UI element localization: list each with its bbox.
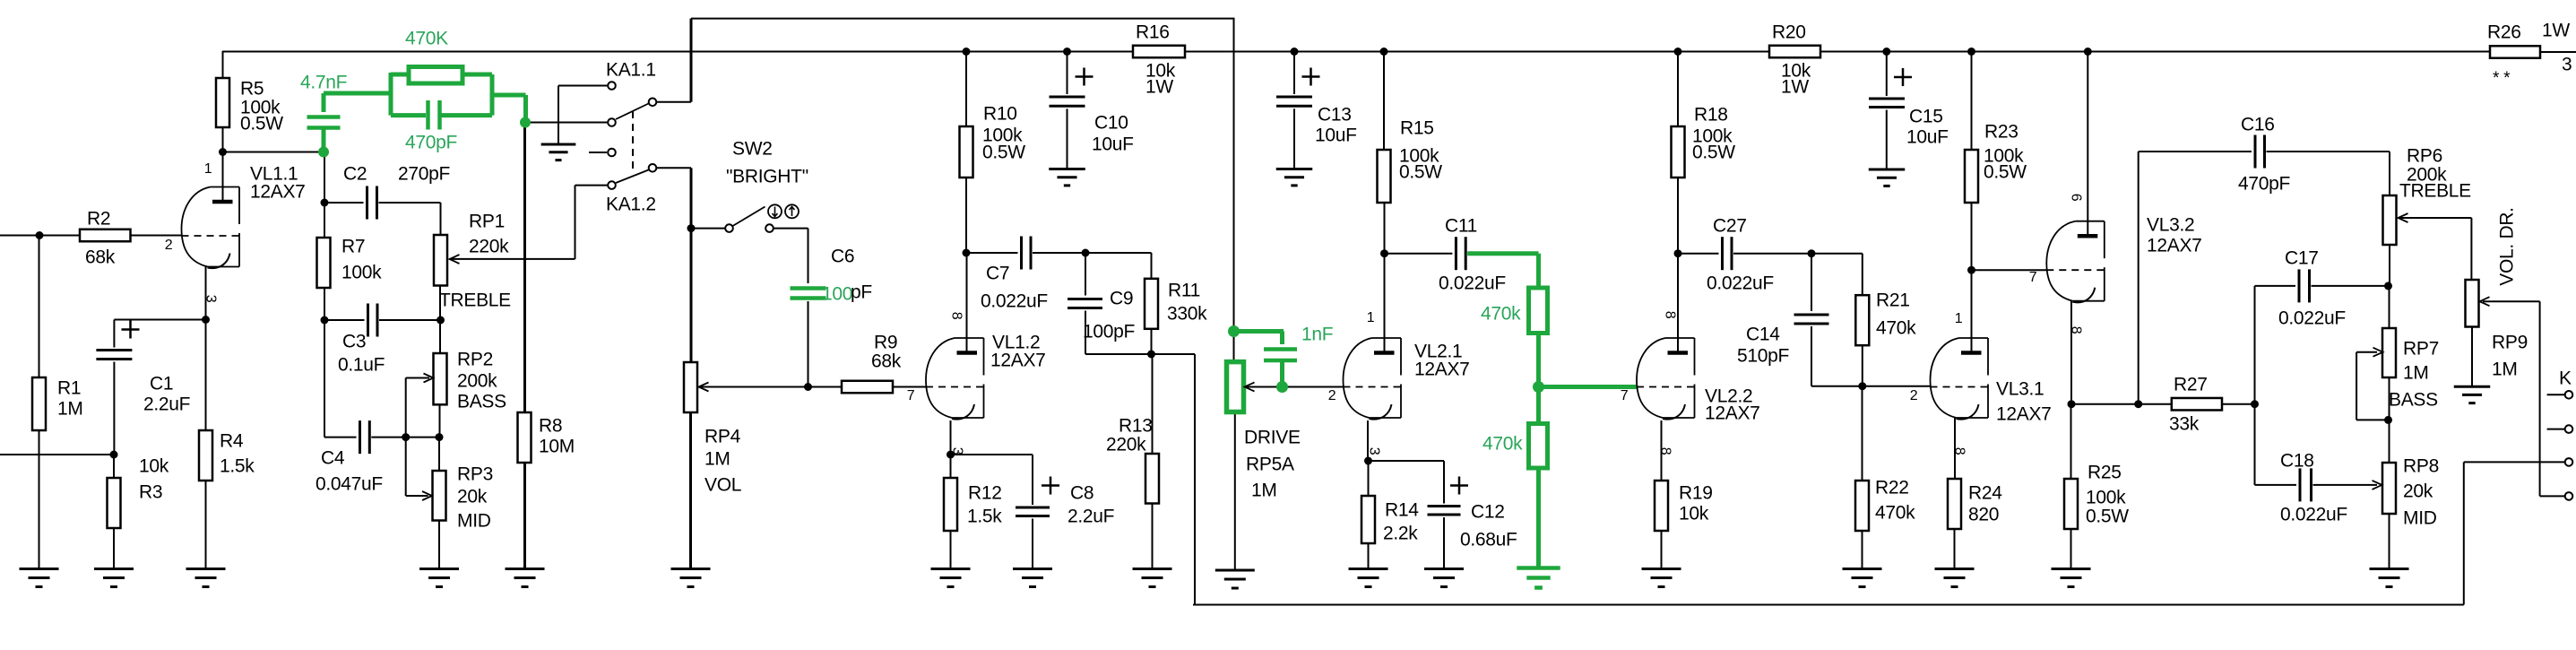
svg-text:R12: R12 bbox=[968, 483, 1002, 504]
svg-text:R26: R26 bbox=[2487, 22, 2521, 43]
svg-text:C14: C14 bbox=[1746, 325, 1780, 345]
svg-text:C8: C8 bbox=[1070, 483, 1094, 504]
svg-text:3: 3 bbox=[1366, 447, 1381, 455]
svg-text:R2: R2 bbox=[87, 209, 110, 230]
svg-text:1.5k: 1.5k bbox=[967, 507, 1002, 527]
svg-text:0.5W: 0.5W bbox=[240, 114, 283, 134]
svg-text:R3: R3 bbox=[139, 482, 162, 503]
svg-text:2: 2 bbox=[1328, 388, 1336, 403]
svg-text:1.5k: 1.5k bbox=[220, 456, 255, 477]
svg-text:8: 8 bbox=[1951, 447, 1967, 455]
svg-text:R27: R27 bbox=[2174, 375, 2208, 395]
svg-text:12AX7: 12AX7 bbox=[1705, 403, 1760, 424]
svg-text:7: 7 bbox=[1621, 388, 1629, 403]
svg-text:RP4: RP4 bbox=[705, 427, 741, 447]
svg-text:C15: C15 bbox=[1909, 107, 1943, 127]
svg-text:3: 3 bbox=[949, 447, 964, 455]
svg-text:K: K bbox=[2559, 368, 2572, 389]
svg-text:330k: 330k bbox=[1167, 304, 1207, 325]
svg-text:R23: R23 bbox=[1984, 122, 2018, 143]
svg-text:1: 1 bbox=[204, 161, 212, 177]
svg-text:470pF: 470pF bbox=[405, 133, 457, 153]
svg-text:C2: C2 bbox=[343, 164, 367, 185]
svg-text:0.022uF: 0.022uF bbox=[1707, 273, 1774, 294]
svg-text:1M: 1M bbox=[57, 399, 83, 420]
svg-text:R5: R5 bbox=[240, 79, 264, 100]
svg-text:100pF: 100pF bbox=[1083, 322, 1135, 342]
svg-text:VOL. DR.: VOL. DR. bbox=[2497, 207, 2518, 285]
svg-text:10k: 10k bbox=[139, 456, 169, 477]
svg-text:BASS: BASS bbox=[457, 392, 506, 412]
svg-text:C4: C4 bbox=[321, 448, 345, 469]
svg-text:510pF: 510pF bbox=[1737, 346, 1789, 367]
svg-text:R18: R18 bbox=[1694, 105, 1728, 126]
svg-text:pF: pF bbox=[851, 282, 872, 303]
svg-text:R10: R10 bbox=[983, 104, 1017, 125]
svg-text:2.2uF: 2.2uF bbox=[1068, 507, 1114, 527]
svg-text:MID: MID bbox=[2403, 508, 2437, 529]
svg-text:220k: 220k bbox=[1106, 435, 1146, 455]
svg-text:R11: R11 bbox=[1168, 281, 1200, 301]
svg-text:R22: R22 bbox=[1875, 478, 1909, 498]
svg-text:2: 2 bbox=[165, 238, 173, 253]
svg-text:1W: 1W bbox=[2542, 21, 2570, 41]
svg-text:1: 1 bbox=[1955, 311, 1963, 326]
svg-text:C1: C1 bbox=[150, 374, 173, 394]
svg-text:10M: 10M bbox=[539, 437, 575, 457]
svg-text:C18: C18 bbox=[2280, 451, 2314, 472]
svg-text:1M: 1M bbox=[2403, 363, 2429, 384]
svg-text:1: 1 bbox=[1367, 310, 1375, 325]
svg-text:VOL: VOL bbox=[705, 475, 741, 496]
svg-text:68k: 68k bbox=[85, 247, 116, 268]
svg-text:100k: 100k bbox=[341, 263, 382, 283]
svg-text:0.047uF: 0.047uF bbox=[316, 474, 383, 495]
svg-text:KA1.1: KA1.1 bbox=[606, 60, 656, 81]
svg-text:R19: R19 bbox=[1679, 483, 1713, 504]
svg-text:10uF: 10uF bbox=[1906, 127, 1949, 148]
svg-text:RP6: RP6 bbox=[2407, 146, 2442, 167]
svg-text:C12: C12 bbox=[1471, 502, 1505, 523]
svg-text:8: 8 bbox=[1662, 311, 1677, 319]
svg-text:R1: R1 bbox=[57, 378, 81, 399]
svg-text:8: 8 bbox=[948, 312, 964, 320]
svg-text:R16: R16 bbox=[1136, 22, 1170, 43]
svg-text:6: 6 bbox=[2068, 194, 2083, 202]
svg-text:2.2k: 2.2k bbox=[1383, 524, 1418, 544]
svg-text:0.68uF: 0.68uF bbox=[1460, 530, 1517, 550]
svg-text:R24: R24 bbox=[1968, 483, 2002, 504]
svg-text:470pF: 470pF bbox=[2238, 174, 2290, 195]
svg-text:C16: C16 bbox=[2241, 115, 2275, 135]
svg-text:R20: R20 bbox=[1772, 22, 1806, 43]
svg-text:10uF: 10uF bbox=[1315, 126, 1357, 146]
svg-text:12AX7: 12AX7 bbox=[1414, 360, 1470, 380]
svg-text:R4: R4 bbox=[220, 431, 244, 452]
svg-text:1M: 1M bbox=[1251, 481, 1277, 501]
svg-text:3: 3 bbox=[2562, 55, 2572, 75]
svg-text:2: 2 bbox=[1910, 388, 1918, 403]
svg-text:C10: C10 bbox=[1094, 113, 1128, 134]
svg-text:0.5W: 0.5W bbox=[1692, 143, 1735, 163]
svg-text:RP9: RP9 bbox=[2492, 333, 2528, 353]
svg-text:R14: R14 bbox=[1385, 500, 1419, 521]
svg-text:33k: 33k bbox=[2169, 414, 2200, 435]
svg-text:1M: 1M bbox=[2492, 360, 2518, 380]
svg-text:VL3.1: VL3.1 bbox=[1996, 379, 2044, 400]
svg-text:R15: R15 bbox=[1400, 118, 1434, 139]
svg-text:12AX7: 12AX7 bbox=[1996, 404, 2052, 425]
svg-text:0.022uF: 0.022uF bbox=[1439, 273, 1506, 294]
svg-text:7: 7 bbox=[907, 388, 915, 403]
svg-text:470k: 470k bbox=[1482, 434, 1523, 455]
svg-text:KA1.2: KA1.2 bbox=[606, 195, 656, 215]
svg-text:MID: MID bbox=[457, 511, 491, 532]
svg-text:C7: C7 bbox=[986, 264, 1009, 284]
svg-text:20k: 20k bbox=[2403, 481, 2433, 502]
svg-text:10uF: 10uF bbox=[1092, 134, 1134, 155]
svg-text:3: 3 bbox=[203, 295, 218, 303]
svg-text:R25: R25 bbox=[2088, 463, 2122, 483]
svg-text:2.2uF: 2.2uF bbox=[143, 394, 190, 415]
svg-text:BASS: BASS bbox=[2389, 390, 2438, 411]
svg-text:R8: R8 bbox=[539, 416, 562, 437]
svg-text:RP7: RP7 bbox=[2403, 339, 2439, 360]
svg-text:1nF: 1nF bbox=[1301, 325, 1333, 345]
svg-text:R13: R13 bbox=[1119, 416, 1153, 437]
svg-text:R9: R9 bbox=[874, 333, 897, 353]
svg-text:1M: 1M bbox=[705, 449, 730, 470]
svg-text:270pF: 270pF bbox=[398, 164, 450, 185]
svg-text:0.5W: 0.5W bbox=[1984, 162, 2027, 183]
svg-text:0.5W: 0.5W bbox=[2086, 507, 2129, 527]
svg-text:R21: R21 bbox=[1876, 290, 1910, 311]
svg-text:SW2: SW2 bbox=[732, 139, 773, 160]
svg-text:200k: 200k bbox=[457, 371, 497, 392]
svg-text:C13: C13 bbox=[1318, 105, 1352, 126]
svg-text:VL3.2: VL3.2 bbox=[2147, 215, 2194, 236]
svg-text:7: 7 bbox=[2029, 270, 2037, 285]
svg-text:8: 8 bbox=[2068, 326, 2083, 334]
svg-text:470k: 470k bbox=[1875, 503, 1915, 524]
svg-text:4.7nF: 4.7nF bbox=[300, 73, 347, 93]
svg-text:TREBLE: TREBLE bbox=[2399, 181, 2471, 202]
svg-text:* *: * * bbox=[2493, 69, 2511, 88]
svg-text:C27: C27 bbox=[1713, 216, 1747, 237]
svg-text:RP8: RP8 bbox=[2403, 456, 2439, 477]
svg-text:10k: 10k bbox=[1679, 504, 1709, 524]
svg-text:0.5W: 0.5W bbox=[1399, 162, 1442, 183]
svg-text:0.022uF: 0.022uF bbox=[2280, 505, 2347, 525]
svg-text:220k: 220k bbox=[469, 237, 509, 257]
svg-text:12AX7: 12AX7 bbox=[2147, 236, 2202, 256]
svg-text:RP5A: RP5A bbox=[1246, 455, 1294, 475]
svg-text:470k: 470k bbox=[1876, 318, 1916, 339]
svg-text:8: 8 bbox=[1657, 447, 1673, 455]
svg-text:RP3: RP3 bbox=[457, 464, 493, 485]
svg-text:0.022uF: 0.022uF bbox=[981, 291, 1048, 312]
svg-text:1W: 1W bbox=[1781, 77, 1809, 98]
svg-text:RP2: RP2 bbox=[457, 350, 493, 370]
svg-text:0.1uF: 0.1uF bbox=[338, 355, 385, 376]
svg-text:"BRIGHT": "BRIGHT" bbox=[726, 167, 808, 187]
svg-text:470K: 470K bbox=[405, 29, 448, 49]
svg-text:12AX7: 12AX7 bbox=[990, 351, 1046, 371]
svg-text:C3: C3 bbox=[342, 332, 366, 352]
svg-text:820: 820 bbox=[1968, 505, 1999, 525]
svg-text:100k: 100k bbox=[2086, 488, 2126, 508]
svg-text:C6: C6 bbox=[831, 247, 854, 267]
svg-text:470k: 470k bbox=[1481, 304, 1521, 325]
svg-text:C17: C17 bbox=[2285, 248, 2319, 269]
svg-text:20k: 20k bbox=[457, 487, 488, 507]
svg-text:1W: 1W bbox=[1145, 77, 1173, 98]
svg-text:DRIVE: DRIVE bbox=[1244, 428, 1301, 448]
svg-text:RP1: RP1 bbox=[469, 212, 505, 232]
svg-text:TREBLE: TREBLE bbox=[439, 290, 511, 311]
svg-text:C11: C11 bbox=[1445, 216, 1477, 237]
svg-text:100: 100 bbox=[822, 284, 852, 305]
svg-text:0.022uF: 0.022uF bbox=[2278, 308, 2346, 329]
svg-text:68k: 68k bbox=[871, 351, 902, 372]
svg-text:12AX7: 12AX7 bbox=[250, 182, 306, 203]
svg-text:C9: C9 bbox=[1110, 289, 1133, 309]
svg-text:R7: R7 bbox=[341, 237, 365, 257]
svg-text:0.5W: 0.5W bbox=[982, 143, 1025, 163]
